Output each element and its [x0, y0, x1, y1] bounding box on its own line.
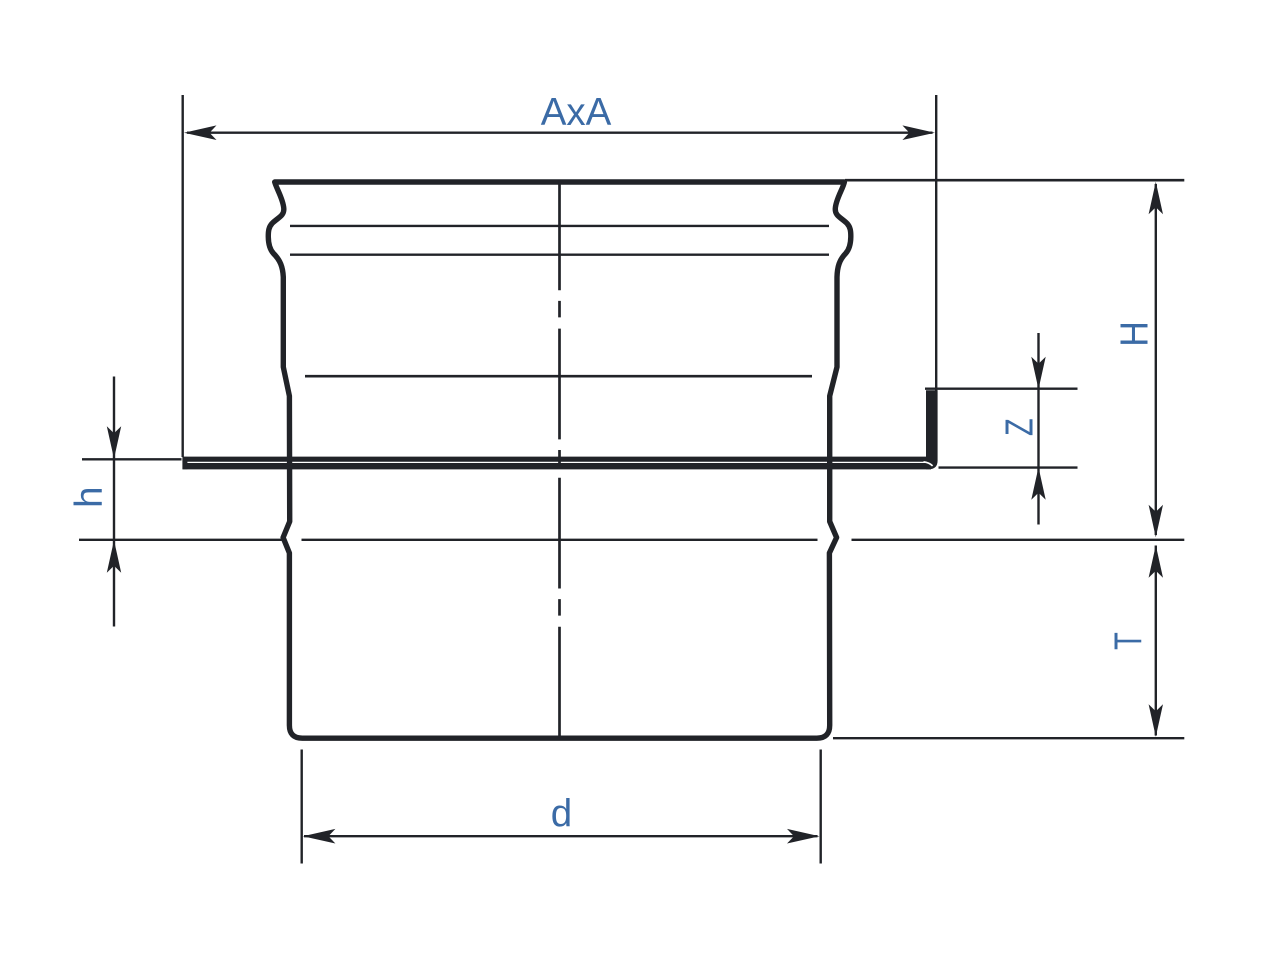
svg-text:Z: Z: [999, 418, 1042, 436]
svg-text:H: H: [1113, 321, 1156, 347]
svg-text:d: d: [551, 793, 572, 836]
svg-text:T: T: [1108, 632, 1151, 650]
svg-text:h: h: [68, 486, 111, 507]
svg-text:AxA: AxA: [541, 91, 612, 134]
